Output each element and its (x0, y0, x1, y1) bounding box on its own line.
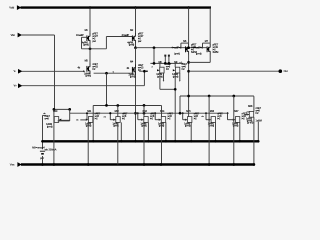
svg-text:(p-ml): (p-ml) (185, 125, 191, 128)
junction gate rail M15 (182, 112, 184, 114)
wire M10 channel to VSS (53, 109, 55, 164)
gate drop for M13 (137, 113, 139, 120)
wire M15 drain from rail96 (188, 96, 190, 117)
current source Idc (32, 146, 57, 159)
wire M8 source down (159, 73, 161, 89)
wire M2 drain stub (135, 44, 137, 48)
junction stub b (168, 62, 171, 65)
wire M11 substrate leg (87, 122, 89, 164)
svg-text:(p-ml): (p-ml) (174, 53, 180, 56)
wire rail to M9 (174, 63, 176, 67)
junction M10 drain (53, 108, 56, 111)
wire tie down to M10 gate (69, 109, 71, 121)
junction VSS M13 (143, 163, 146, 166)
svg-text:(p-ml): (p-ml) (47, 125, 53, 128)
wire M2 drain to M6 M7 gates (136, 47, 207, 49)
junction VSS Idc (41, 163, 44, 166)
svg-text:M0=nmos4: M0=nmos4 (32, 146, 45, 149)
transistor M13 (140, 110, 156, 128)
svg-text:(p-ml): (p-ml) (130, 76, 136, 79)
wire M10 drain rail (54, 108, 70, 110)
junction VSS right b (232, 163, 235, 166)
junction bias rail M12 (120, 140, 123, 143)
wire M1 drain to M5 drain (89, 49, 91, 64)
junction gate rail M16 (205, 112, 207, 114)
junction M8/M9 legs (174, 88, 177, 91)
wire VinP riser to M4 gate node (143, 71, 145, 86)
M9 substrate mark (179, 80, 181, 82)
svg-text:1xNM: 1xNM (256, 119, 262, 122)
VDD bus (21, 6, 212, 8)
wire bias rail to Idc (42, 141, 44, 149)
transistor M16 (208, 110, 224, 128)
wire M9 source down to bias rail (174, 73, 176, 141)
wire folded node rail (93, 105, 161, 107)
junction VDD/M2 (134, 6, 137, 9)
wire M8 jog right (160, 88, 175, 90)
M10 gate wire right (59, 119, 70, 121)
wire M8 substrate stub (163, 73, 165, 80)
bias rail bus (43, 140, 259, 142)
wire M15 leg to bias rail (190, 122, 192, 141)
junction bias rail M13 (147, 140, 150, 143)
svg-text:(p-ml): (p-ml) (129, 44, 135, 47)
pin Out arrow (279, 69, 283, 73)
wire cascode rail (150, 62, 183, 64)
gate drop for M16 (205, 113, 207, 120)
junction bias rail M15 (190, 140, 193, 143)
junction bias rail M11 (92, 140, 95, 143)
wire rail A tail (160, 105, 163, 107)
junction VSS M14 (160, 163, 163, 166)
wire rail96 left drop (179, 96, 181, 113)
junction bias rail M2 leg (134, 140, 137, 143)
wire tail current down (106, 73, 108, 105)
junction VSS M11 sub (87, 163, 90, 166)
junction bias rail M16 (214, 140, 217, 143)
wire M1 drain stub (89, 44, 91, 49)
wire mirror to M2 gate (106, 36, 132, 38)
wire right drain rail (180, 95, 254, 97)
wire M14 leg to VSS (161, 122, 163, 164)
M5 gate arrowhead (83, 70, 85, 72)
transistor M11 (85, 110, 101, 128)
wire tap down to cascode rail (153, 48, 155, 64)
wire VDD to M6 source (188, 8, 190, 45)
wire M18 source to VSS (253, 117, 255, 164)
junction VSS M10 (53, 163, 56, 166)
svg-text:4=wellP: 4=wellP (122, 34, 130, 37)
junction M6 gate / rail (187, 46, 190, 49)
transistor M18 (246, 105, 262, 123)
wire F bulk tick (43, 114, 47, 116)
transistor M9 (172, 61, 188, 79)
pin VinP arrow (18, 84, 21, 87)
wire M12 drain into box (117, 106, 119, 117)
gate drop for M11 (86, 113, 88, 120)
junction M5 source node (105, 72, 108, 75)
pin VDD arrow (17, 6, 20, 9)
stub bias b (168, 55, 170, 63)
junction VDD/M6 (187, 6, 190, 9)
transistor M2 (122, 29, 144, 46)
pin VSS arrow (18, 163, 21, 166)
svg-text:Vdd: Vdd (9, 6, 14, 10)
wire VDD to M2 source (135, 8, 137, 34)
wire rail to M8 (159, 63, 161, 67)
pin VinM arrow (18, 70, 21, 73)
junction M1 drain node (89, 47, 92, 50)
junction M13 drain (143, 104, 146, 107)
wire M7 drain down (209, 55, 211, 63)
wire output (189, 70, 280, 72)
wire M1 gate to drain (82, 48, 107, 50)
M18 gate stub (244, 114, 249, 116)
wire M14 leg to bias rail (165, 122, 167, 141)
junction output node (187, 70, 190, 73)
junction gate rail M17 (227, 112, 229, 114)
wire VDD to M1 source (89, 8, 91, 34)
transistor M1 (76, 29, 98, 46)
junction VSS M18 (253, 163, 256, 166)
M8 substrate mark (163, 80, 165, 82)
transistor M17 (232, 110, 248, 128)
wire nmos gate bias rail (70, 112, 227, 114)
transistor M4 (127, 61, 144, 79)
junction bias rail Idc (41, 140, 44, 143)
stub bias a (164, 55, 166, 63)
wire M12 leg to bias rail (120, 122, 122, 141)
junction tail joins rail (105, 104, 108, 107)
wire M13 leg to bias rail (147, 122, 149, 141)
transistor M5 (78, 60, 99, 78)
svg-text:Vbn: Vbn (11, 34, 16, 37)
svg-text:pwr: pwr (92, 40, 96, 43)
wire VDD end to M7 source (209, 8, 211, 45)
M7 well strap (203, 42, 211, 44)
M6 well strap (181, 42, 189, 44)
svg-text:6xPM: 6xPM (213, 51, 219, 54)
wire M4 gate right (139, 70, 147, 72)
transistor M12 (112, 110, 128, 128)
svg-text:V-: V- (14, 70, 16, 73)
M4 gate export tick (146, 71, 148, 73)
wire M7 drain to M6 drain (189, 61, 211, 63)
junction M13 gate tie (143, 112, 146, 115)
junction out branch (187, 61, 190, 64)
junction stub a (164, 62, 167, 65)
wire VinP horizontal (22, 85, 145, 87)
junction bias rail end M18 (257, 140, 260, 143)
junction gate rail M11 (86, 112, 88, 114)
transistor M6 (171, 40, 197, 55)
junction cascode rail left (153, 62, 156, 65)
wire M1 gate left (82, 36, 87, 38)
wire F bulk riser (42, 115, 44, 141)
transistor M10 (45, 110, 62, 128)
wire M10 gate stub (58, 120, 70, 122)
transistor M7 (193, 40, 219, 55)
wire M14 drain into box (161, 106, 163, 117)
junction gate rail tap (153, 46, 156, 49)
wire M6 drain down (188, 55, 190, 97)
junction M4 gate node (143, 70, 146, 73)
junction rail96 a (208, 95, 211, 98)
wire M16 leg to bias rail (215, 122, 217, 141)
wire M18 bulk leg to bias rail end (257, 122, 259, 142)
junction at nGate rail (134, 112, 137, 115)
junction M2 drain (134, 46, 137, 49)
wire right leg b to VSS (233, 96, 235, 165)
junction VSS right a (208, 163, 211, 166)
wire M13 leg to VSS (143, 122, 145, 164)
wire M9 substrate stub (179, 73, 181, 80)
junction VDD/M1 (89, 6, 92, 9)
junction gate rail M12 (109, 112, 111, 114)
wire VinM to M5 gate (22, 70, 85, 72)
wire M2 drain down to bias rail (135, 48, 137, 142)
junction bias rail M14 (165, 140, 168, 143)
wire Idc to VSS (42, 156, 44, 165)
wire M18 drain from rail96 corner (253, 96, 255, 111)
junction bias rail M17 (238, 140, 241, 143)
pin Vbias1 arrow (18, 33, 21, 36)
svg-text:4=wellP: 4=wellP (76, 34, 84, 37)
transistor M8 (156, 61, 172, 79)
wire pin2 to vertical (21, 34, 54, 36)
svg-text:(p-ml): (p-ml) (85, 75, 91, 78)
wire M5 source right (94, 72, 134, 74)
gate drop for M17 (227, 113, 229, 120)
svg-text:(p-ml): (p-ml) (196, 53, 202, 56)
wire M13 drain into box (143, 105, 145, 116)
svg-text:(p-ml): (p-ml) (247, 122, 253, 125)
svg-text:wb 200mA: wb 200mA (45, 149, 57, 152)
junction rail96 M6-drain (187, 95, 190, 98)
svg-text:Out: Out (284, 70, 288, 73)
wire M11 channel down (92, 106, 94, 142)
gate drop for M15 (182, 113, 184, 120)
wire M12 leg to VSS (117, 122, 119, 164)
junction M12 drain (116, 104, 119, 107)
wire M17 leg to bias rail (239, 122, 241, 141)
svg-text:Vss: Vss (10, 163, 15, 167)
junction gate rail / rail96 (179, 112, 182, 115)
transistor M14 (158, 110, 174, 128)
junction drain-gate tie (68, 108, 71, 111)
junction bias rail M9 leg (174, 140, 177, 143)
svg-text:(p-ml): (p-ml) (83, 44, 89, 47)
gate drop for M12 (109, 113, 111, 120)
transistor M15 (184, 110, 200, 128)
wire mirror riser (105, 37, 107, 49)
wire vertical node B1 (54, 35, 56, 109)
wire M1 gate down (81, 37, 83, 49)
wire right leg a to VSS (208, 96, 210, 165)
junction rail96 b (232, 95, 235, 98)
gate drop for M14 (154, 113, 156, 120)
VSS bus (21, 163, 255, 165)
junction gate rail M14 (154, 112, 156, 114)
svg-text:pwr: pwr (138, 40, 142, 43)
junction gate rail M13 (137, 112, 139, 114)
M11 gate lead (80, 119, 86, 121)
